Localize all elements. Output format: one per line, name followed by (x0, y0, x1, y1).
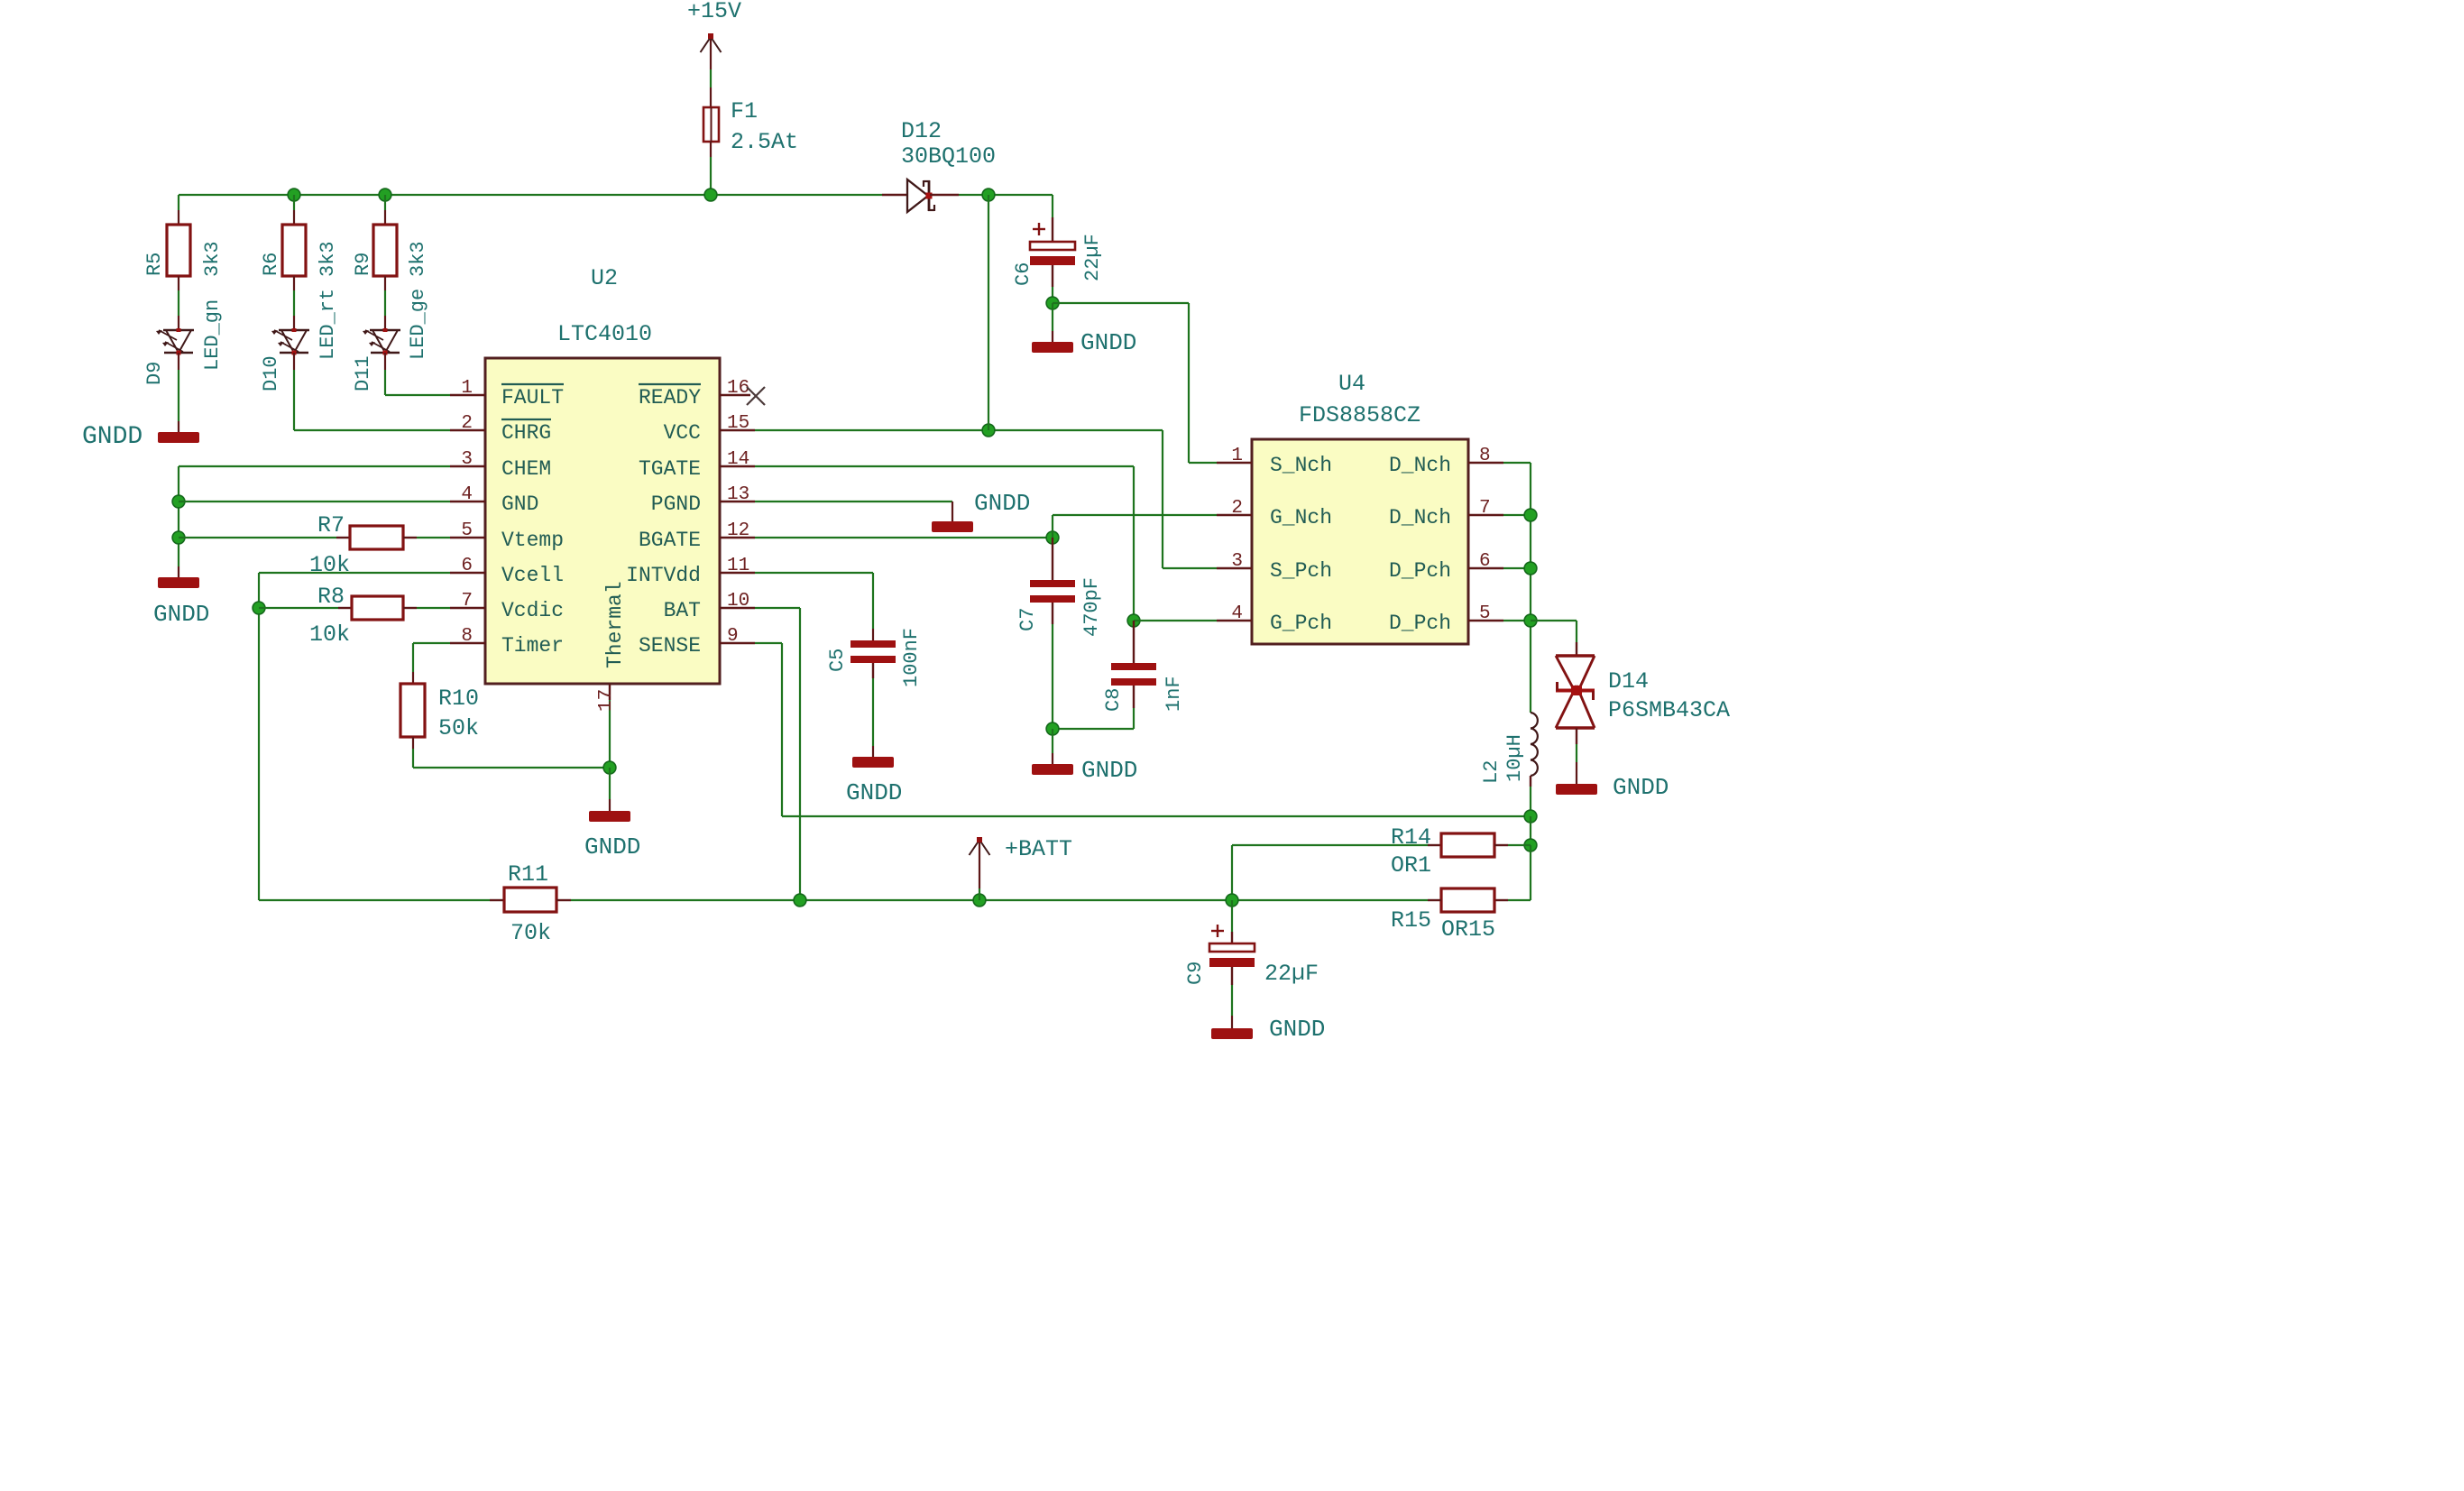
junction BGATE/C7/G_Nch (1046, 531, 1059, 544)
fuse F1 (703, 107, 719, 142)
resistor R6 3k3 (282, 225, 306, 276)
svg-text:4: 4 (461, 484, 473, 505)
svg-text:10k: 10k (309, 552, 350, 578)
svg-text:2.5At: 2.5At (731, 129, 798, 155)
svg-text:30BQ100: 30BQ100 (901, 143, 996, 170)
svg-text:TGATE: TGATE (639, 457, 701, 481)
svg-text:OR1: OR1 (1391, 852, 1431, 879)
wire BAT pin10 (755, 607, 800, 609)
junction Vtemp/R7 (172, 531, 185, 544)
svg-text:3k3: 3k3 (317, 241, 339, 277)
junction TGATE/G_Pch/C8 (1127, 614, 1140, 627)
wire R7 left (179, 537, 336, 538)
svg-text:6: 6 (1479, 551, 1491, 572)
wire R9 to D11 (384, 276, 386, 290)
diode D14 P6SMB43CA (1556, 654, 1595, 657)
wire R7 right (403, 537, 417, 538)
ground GNDD (LED D9) (158, 432, 199, 443)
svg-text:10k: 10k (309, 621, 350, 648)
wire R8 left (259, 607, 338, 609)
svg-text:3: 3 (461, 449, 473, 470)
junction rail/R6 (288, 189, 300, 201)
svg-text:8: 8 (461, 626, 473, 647)
wire D14 to GNDD (1576, 744, 1577, 762)
junction R14 right (1524, 839, 1537, 851)
junction pin6 (1524, 562, 1537, 575)
junction pin7 (1524, 509, 1537, 521)
capacitor C6 22uF (1033, 228, 1045, 230)
wire CHEM pin3 (179, 465, 450, 467)
svg-text:FDS8858CZ: FDS8858CZ (1299, 402, 1420, 428)
wire C7 bottom (1052, 624, 1053, 729)
U2 pin 6 stub (450, 572, 485, 574)
wire rail to R9 (384, 195, 386, 210)
U2 pin 16 stub (720, 394, 750, 396)
op-amp U2 body (485, 358, 720, 684)
+15V supply symbol (710, 38, 712, 69)
wire rail D12 to C6 corner (959, 194, 1053, 196)
inductor L2 10uH (1531, 713, 1538, 729)
wire INTVdd pin11 (755, 572, 873, 574)
junction GND pin4 (172, 495, 185, 508)
wire R5 to D9 (178, 276, 179, 290)
svg-text:GND: GND (501, 492, 538, 516)
svg-text:CHRG: CHRG (501, 421, 551, 445)
svg-text:GNDD: GNDD (153, 601, 209, 628)
junction rail/C9/R14 (1226, 894, 1238, 907)
svg-text:3: 3 (1231, 551, 1243, 572)
wire VCC to S_Pch (1162, 430, 1163, 568)
svg-text:D11: D11 (352, 355, 374, 391)
wire Timer pin8 (413, 642, 450, 644)
svg-text:C9: C9 (1184, 962, 1207, 985)
wire R14 right (1494, 844, 1508, 846)
ground GNDD (C6) (1032, 342, 1073, 353)
svg-text:GNDD: GNDD (846, 779, 902, 806)
U4 pin 3 stub (1217, 567, 1252, 569)
U2 pin 3 stub (450, 465, 485, 467)
svg-text:R15: R15 (1391, 907, 1431, 934)
svg-text:LED_rt: LED_rt (317, 289, 339, 360)
svg-text:VCC: VCC (664, 421, 701, 445)
U4 pin 2 stub (1217, 514, 1252, 516)
U2 pin 5 stub (450, 537, 485, 538)
wire PGND pin13 (755, 501, 952, 502)
svg-text:Vcdic: Vcdic (501, 599, 564, 622)
resistor R11 70k (504, 888, 556, 912)
wire D9 to GNDD (178, 353, 179, 370)
U4 pin 4 stub (1217, 620, 1252, 621)
U2 pin 11 stub (720, 572, 755, 574)
ground GNDD (PGND) (932, 521, 973, 532)
wire TGATE pin14 (755, 465, 1134, 467)
svg-text:6: 6 (461, 556, 473, 576)
resistor R8 10k (352, 596, 403, 620)
svg-text:11: 11 (727, 556, 749, 576)
svg-text:PGND: PGND (651, 492, 701, 516)
svg-text:Timer: Timer (501, 634, 564, 658)
svg-text:D9: D9 (143, 362, 166, 385)
resistor R9 3k3 (373, 225, 397, 276)
ground GNDD (C7/C8) (1032, 764, 1073, 775)
wire D10 to CHRG pin2 (293, 353, 295, 370)
svg-text:9: 9 (727, 626, 739, 647)
svg-text:2: 2 (461, 413, 473, 434)
U4 pin 5 stub (1468, 620, 1503, 621)
svg-text:2: 2 (1231, 498, 1243, 519)
svg-text:R7: R7 (317, 512, 345, 538)
wire R10 bottom (412, 737, 414, 749)
wire battery rail (259, 899, 490, 901)
wire to D14 (1531, 620, 1577, 621)
U2 pin 1 stub (450, 394, 485, 396)
U2 pin 14 stub (720, 465, 755, 467)
svg-text:13: 13 (727, 484, 749, 505)
wire C8 bottom (1133, 708, 1135, 729)
wire CHEM corner down (178, 466, 179, 566)
wire VCC drop from rail (988, 195, 989, 430)
ground GNDD (left chain) (158, 577, 199, 588)
svg-text:D12: D12 (901, 118, 942, 144)
svg-text:3k3: 3k3 (407, 241, 429, 277)
svg-text:F1: F1 (731, 98, 758, 124)
svg-text:FAULT: FAULT (501, 386, 564, 410)
U4 pin 6 stub (1468, 567, 1503, 569)
capacitor C9 22uF (1211, 930, 1224, 932)
U2 pin 12 stub (720, 537, 755, 538)
svg-text:R10: R10 (438, 686, 479, 712)
junction rail/VCC drop (982, 189, 995, 201)
svg-text:BGATE: BGATE (639, 529, 701, 552)
junction rail/BAT (794, 894, 806, 907)
svg-text:SENSE: SENSE (639, 634, 701, 658)
U2 pin 13 stub (720, 501, 755, 502)
+BATT supply symbol (979, 842, 980, 888)
wire R14 left (1231, 845, 1233, 900)
svg-text:4: 4 (1231, 603, 1243, 624)
U2 FAULT overline (501, 383, 564, 385)
svg-text:D_Nch: D_Nch (1389, 454, 1451, 477)
wire C9 bottom (1231, 985, 1233, 1016)
svg-text:G_Pch: G_Pch (1270, 612, 1332, 635)
U4 pin 1 stub (1217, 462, 1252, 464)
svg-text:D10: D10 (260, 355, 282, 391)
svg-text:D_Pch: D_Pch (1389, 612, 1451, 635)
resistor R10 50k (400, 684, 425, 737)
svg-text:D14: D14 (1608, 668, 1649, 695)
ground GNDD (C9) (1211, 1028, 1253, 1039)
svg-text:U4: U4 (1338, 371, 1365, 397)
wire C6 bottom (1052, 287, 1053, 303)
svg-text:R11: R11 (508, 861, 548, 888)
svg-text:8: 8 (1479, 446, 1491, 466)
svg-text:LED_gn: LED_gn (201, 299, 224, 371)
svg-text:17: 17 (596, 689, 617, 712)
capacitor C7 470pF (1052, 538, 1053, 580)
svg-text:22µF: 22µF (1081, 234, 1104, 281)
svg-text:BAT: BAT (664, 599, 701, 622)
svg-text:LED_ge: LED_ge (407, 289, 429, 360)
wire rail to R6 (293, 195, 295, 210)
wire top rail left (179, 194, 882, 196)
junction Vcell/R8 (253, 602, 265, 614)
svg-text:1: 1 (461, 378, 473, 399)
svg-text:100nF: 100nF (900, 628, 923, 687)
junction rail/+BATT (973, 894, 986, 907)
svg-text:GNDD: GNDD (584, 833, 640, 861)
transistor pair U4 body (1252, 439, 1468, 644)
svg-text:14: 14 (727, 449, 749, 470)
svg-text:22µF: 22µF (1264, 961, 1319, 987)
svg-text:C5: C5 (826, 649, 849, 672)
ground GNDD (pin17) (589, 811, 630, 822)
svg-text:READY: READY (639, 386, 701, 410)
svg-text:C6: C6 (1012, 262, 1034, 286)
svg-text:10µH: 10µH (1503, 734, 1526, 782)
svg-text:10: 10 (727, 591, 749, 612)
svg-text:1nF: 1nF (1163, 676, 1185, 712)
U2 pin 7 stub (450, 607, 485, 609)
capacitor C5 100nF (850, 640, 896, 648)
svg-text:1: 1 (1231, 446, 1243, 466)
wire GND pin4 (179, 501, 450, 502)
wire rail to C9 (1231, 900, 1233, 932)
U4 pin 8 stub (1468, 462, 1503, 464)
wire D_Pch pin5 (1503, 620, 1531, 621)
svg-text:OR15: OR15 (1441, 916, 1495, 943)
svg-text:16: 16 (727, 378, 749, 399)
svg-text:3k3: 3k3 (201, 241, 224, 277)
wire D_Pch pin6 (1503, 567, 1531, 569)
U2 pin 2 stub (450, 429, 485, 431)
junction Thermal/R10 (603, 761, 616, 774)
wire Vcell pin6 (259, 572, 450, 574)
svg-text:Vcell: Vcell (501, 564, 564, 587)
resistor R14 OR1 (1441, 833, 1494, 857)
svg-text:15: 15 (727, 413, 749, 434)
svg-text:R5: R5 (143, 253, 166, 276)
svg-text:GNDD: GNDD (82, 423, 143, 451)
svg-text:470pF: 470pF (1080, 577, 1103, 637)
svg-text:R6: R6 (260, 253, 282, 276)
svg-text:C8: C8 (1102, 688, 1125, 712)
svg-text:GNDD: GNDD (1269, 1016, 1325, 1043)
U2 READY overline (639, 383, 701, 385)
wire D11 to FAULT pin1 (384, 353, 386, 370)
wire D_Nch pin7 (1503, 514, 1531, 516)
LED D11 (370, 329, 400, 331)
wire G_Nch pin2 (1052, 515, 1053, 538)
LED D9 (163, 329, 194, 331)
wire L2 bottom (1530, 776, 1531, 787)
U2 CHRG overline (501, 419, 551, 420)
LED D10 (279, 329, 309, 331)
svg-text:GNDD: GNDD (974, 490, 1030, 517)
svg-text:S_Pch: S_Pch (1270, 559, 1332, 583)
svg-text:Vtemp: Vtemp (501, 529, 564, 552)
svg-text:50k: 50k (438, 715, 479, 741)
svg-text:7: 7 (1479, 498, 1491, 519)
ground GNDD (C5) (852, 757, 894, 768)
U2 pin 10 stub (720, 607, 755, 609)
wire R8 right (403, 607, 417, 609)
svg-text:CHEM: CHEM (501, 457, 551, 481)
resistor R15 OR15 (1441, 888, 1494, 912)
ground GNDD (D14) (1556, 784, 1597, 795)
svg-text:7: 7 (461, 591, 473, 612)
wire R15 left stub (1428, 899, 1441, 901)
wire F1 to rail (710, 157, 712, 195)
U2 pin 8 stub (450, 642, 485, 644)
U4 pin 7 stub (1468, 514, 1503, 516)
svg-text:R8: R8 (317, 584, 345, 610)
svg-text:INTVdd: INTVdd (626, 564, 701, 587)
junction C6/gnd (1046, 297, 1059, 309)
junction rail/R9 (379, 189, 391, 201)
wire BGATE pin12 (755, 537, 1053, 538)
svg-text:+BATT: +BATT (1005, 836, 1072, 862)
svg-text:D_Nch: D_Nch (1389, 506, 1451, 529)
svg-text:C7: C7 (1016, 608, 1039, 631)
wire rail to R5 (178, 195, 179, 210)
svg-text:12: 12 (727, 520, 749, 541)
svg-text:S_Nch: S_Nch (1270, 454, 1332, 477)
svg-text:5: 5 (1479, 603, 1491, 624)
wire gnd to S_Nch (1053, 302, 1189, 304)
wire rail to C6 (1052, 195, 1053, 217)
wire C5 bottom (872, 678, 874, 746)
svg-text:5: 5 (461, 520, 473, 541)
svg-text:Thermal: Thermal (603, 581, 627, 668)
svg-text:GNDD: GNDD (1080, 329, 1136, 356)
wire VCC pin15 (755, 429, 1163, 431)
svg-text:P6SMB43CA: P6SMB43CA (1608, 697, 1730, 723)
wire R6 to D10 (293, 276, 295, 290)
wire to GNDD (C7/C8) (1052, 729, 1053, 753)
svg-text:L2: L2 (1480, 760, 1503, 784)
wire C6 junction to GNDD (1052, 303, 1053, 331)
wire to G_Pch pin4 (1134, 620, 1217, 621)
wire pin17 to GNDD (609, 768, 611, 799)
U2 pin 17 stub (609, 684, 611, 700)
svg-text:U2: U2 (591, 265, 618, 291)
svg-text:LTC4010: LTC4010 (557, 321, 652, 347)
U2 pin16 no-connect X (747, 387, 765, 405)
U2 pin 15 stub (720, 429, 755, 431)
junction rail/F1 (704, 189, 717, 201)
wire SENSE pin9 (755, 642, 782, 644)
resistor R7 10k (350, 526, 403, 549)
svg-text:G_Nch: G_Nch (1270, 506, 1332, 529)
wire rail R11 to R15 (556, 899, 571, 901)
wire R14 node (1530, 816, 1531, 845)
svg-text:R14: R14 (1391, 824, 1431, 851)
svg-text:D_Pch: D_Pch (1389, 559, 1451, 583)
wire D_Nch pin8 (1503, 462, 1531, 464)
svg-text:GNDD: GNDD (1613, 774, 1669, 801)
junction C7/C8 gnd (1046, 722, 1059, 735)
diode D12 30BQ100 (882, 194, 907, 196)
junction L2/SENSE (1524, 810, 1537, 823)
svg-text:+15V: +15V (687, 0, 741, 24)
svg-text:70k: 70k (510, 920, 551, 946)
U2 pin 4 stub (450, 501, 485, 502)
svg-text:R9: R9 (352, 253, 374, 276)
svg-text:GNDD: GNDD (1081, 757, 1137, 784)
junction pin5 (1524, 614, 1537, 627)
U2 pin 9 stub (720, 642, 755, 644)
resistor R5 3k3 (167, 225, 190, 276)
capacitor C8 1nF (1133, 621, 1135, 663)
junction VCC/C6 drop (982, 424, 995, 437)
wire R15 riser (1530, 845, 1531, 900)
